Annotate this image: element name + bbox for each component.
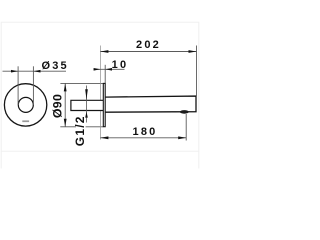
svg-text:10: 10 xyxy=(112,59,129,71)
svg-text:G1/2: G1/2 xyxy=(73,115,87,146)
svg-text:Ø35: Ø35 xyxy=(41,60,68,72)
svg-text:Ø90: Ø90 xyxy=(50,94,64,118)
svg-text:202: 202 xyxy=(136,39,161,51)
svg-text:180: 180 xyxy=(133,126,158,138)
